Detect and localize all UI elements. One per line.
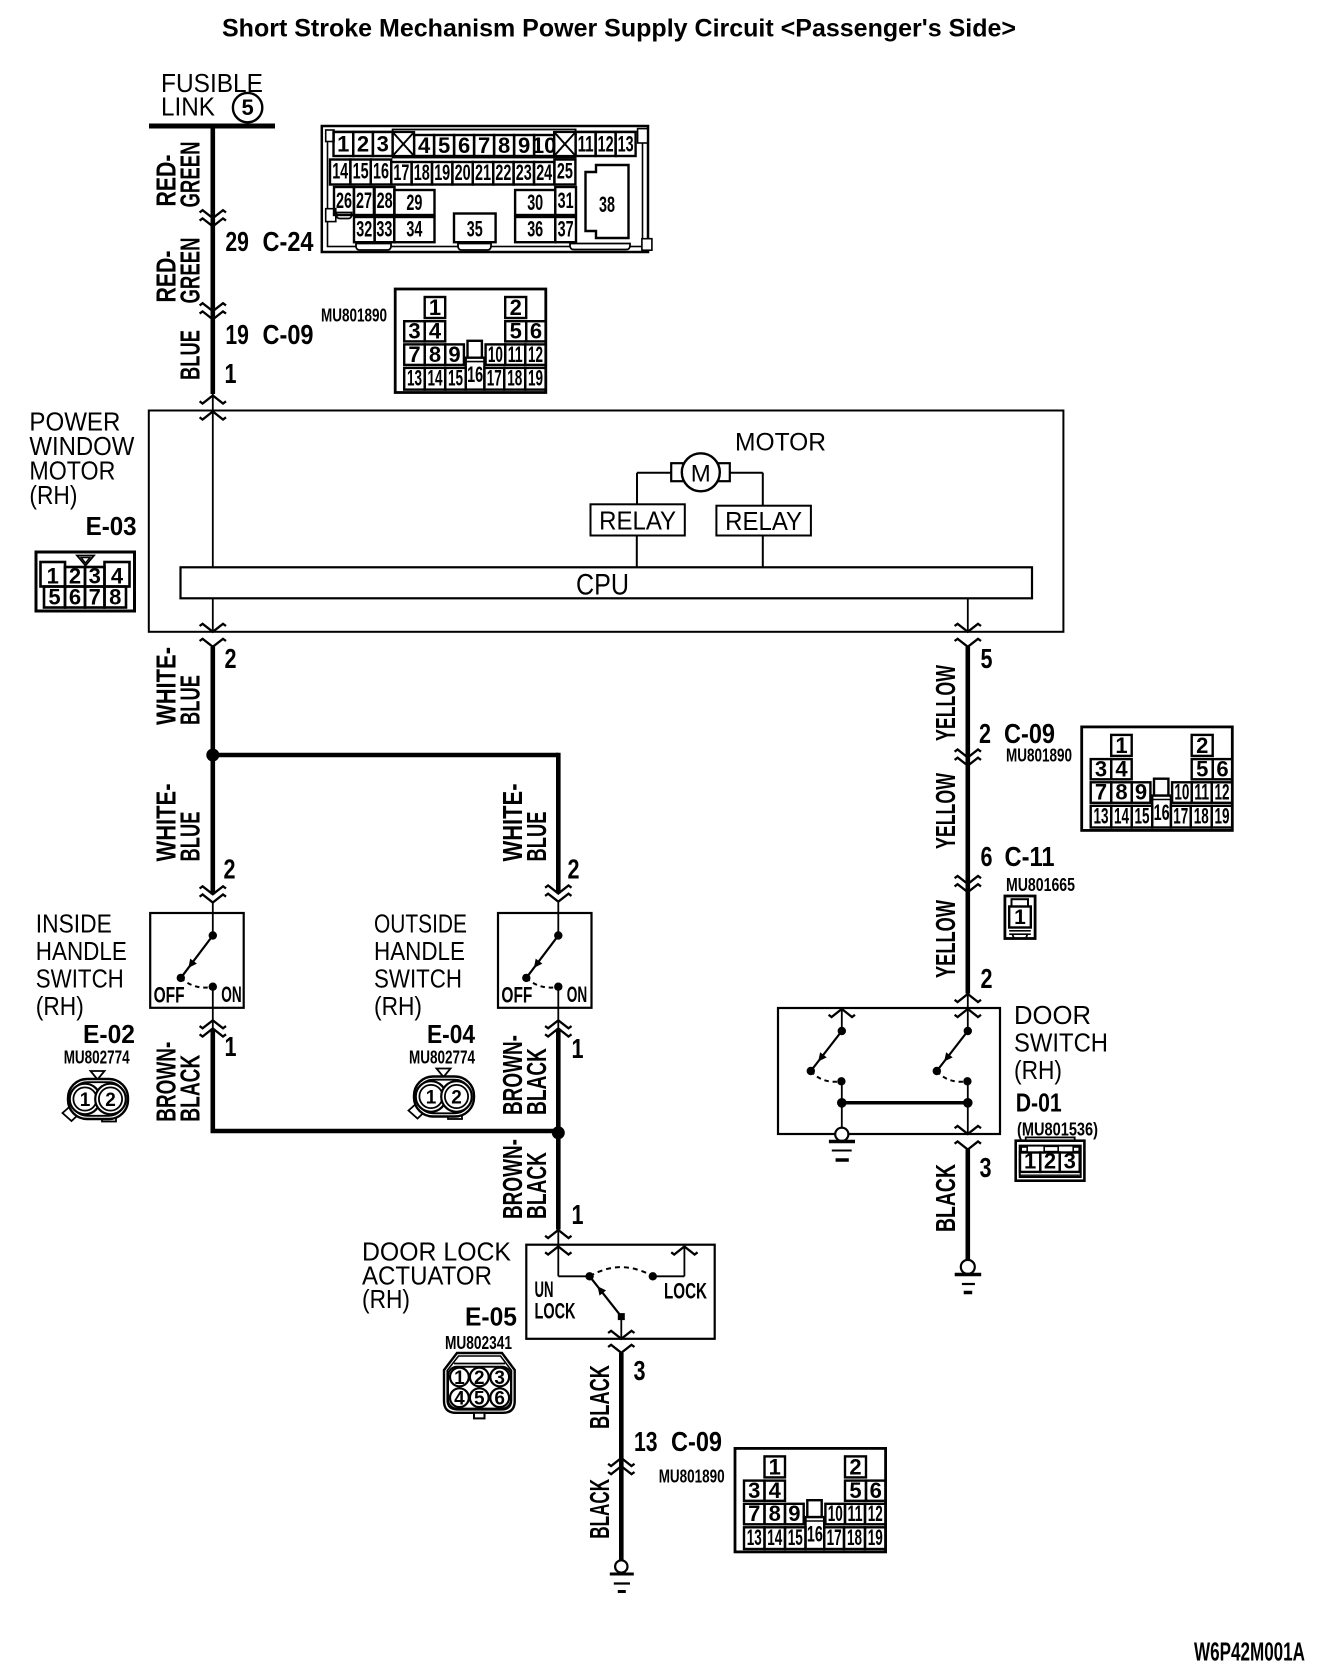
svg-text:2: 2 [979,718,991,749]
connector crossing E-04 pin 2 [545,886,571,894]
svg-text:SWITCH: SWITCH [36,964,124,994]
svg-text:5: 5 [438,133,450,158]
svg-text:D-01: D-01 [1016,1088,1062,1118]
svg-text:1: 1 [80,1090,91,1111]
svg-text:8: 8 [498,133,510,158]
svg-text:C-09: C-09 [671,1426,722,1457]
svg-text:RELAY: RELAY [599,505,676,535]
svg-text:GREEN: GREEN [174,238,205,304]
svg-text:29: 29 [225,226,249,257]
connector crossing C-09 pin 13 [608,1466,634,1474]
svg-text:1: 1 [337,132,349,157]
svg-text:BLACK: BLACK [584,1365,615,1429]
svg-text:BLUE: BLUE [174,812,205,862]
svg-text:1: 1 [572,1199,584,1230]
wire BLACK actuator to C-09 [619,1353,624,1561]
svg-text:3: 3 [634,1355,646,1386]
svg-text:LINK: LINK [161,92,216,122]
wire exit door lock actuator pin 3 [620,1317,622,1339]
svg-text:3: 3 [377,132,389,157]
svg-text:MU801665: MU801665 [1006,875,1075,895]
connector C-24 pin 38 [586,165,629,238]
svg-text:MU802774: MU802774 [64,1048,130,1068]
svg-text:18: 18 [414,160,430,185]
wire CPU to box bottom pin 5 [967,598,969,632]
wire entry into power window motor box [212,394,214,411]
wire BROWN-BLACK junction to door lock actuator [556,1133,561,1230]
svg-text:14: 14 [332,159,348,184]
door switch right contact set [964,1027,972,1035]
svg-text:2: 2 [224,854,236,885]
svg-text:BLACK: BLACK [930,1164,961,1232]
svg-text:35: 35 [467,217,483,242]
wire YELLOW C-11 to door switch [965,884,970,994]
body ground G3 [615,1560,627,1572]
door switch internal ground G1 [841,1103,843,1128]
svg-text:BLACK: BLACK [584,1479,615,1539]
wire CPU to box bottom pin 2 [212,598,214,632]
connector E-03 pin layout [36,552,135,611]
wire YELLOW C-09 to C-11 [965,758,970,885]
svg-text:SWITCH: SWITCH [374,964,462,994]
svg-text:LOCK: LOCK [535,1299,576,1324]
door switch left contact set [841,1008,843,1031]
svg-text:BLUE: BLUE [174,330,205,380]
svg-text:8: 8 [109,585,121,610]
svg-text:M: M [691,461,711,488]
svg-text:1: 1 [225,1031,237,1062]
connector crossing C-09 pin 2 [955,750,981,758]
svg-text:7: 7 [478,133,490,158]
svg-text:C-24: C-24 [263,226,314,257]
svg-text:INSIDE: INSIDE [36,909,112,939]
svg-text:2: 2 [1044,1148,1056,1173]
power window motor box [149,411,1064,632]
wire BROWN-BLACK outside switch to junction [557,1008,559,1029]
svg-text:W6P42M001A: W6P42M001A [1194,1637,1305,1667]
svg-text:1: 1 [1024,1148,1036,1173]
svg-text:23: 23 [516,160,532,185]
svg-text:34: 34 [406,217,422,242]
svg-text:(RH): (RH) [374,991,422,1021]
svg-text:28: 28 [377,188,393,213]
svg-text:MU802341: MU802341 [445,1333,512,1353]
svg-text:SWITCH: SWITCH [1014,1028,1108,1058]
body ground G2 [961,1260,975,1274]
svg-text:2: 2 [357,132,369,157]
svg-text:11: 11 [578,132,594,157]
svg-text:MOTOR: MOTOR [735,429,826,457]
wire exit door switch pin 3 [967,1103,969,1134]
door switch common link [842,1101,968,1105]
connector E-04 symbol [409,1069,475,1120]
svg-text:BLACK: BLACK [521,1048,552,1115]
svg-text:OFF: OFF [154,982,185,1007]
svg-text:6: 6 [494,1389,505,1410]
svg-text:25: 25 [557,159,573,184]
svg-text:(RH): (RH) [29,480,77,510]
svg-text:6: 6 [981,841,993,872]
connector E-02 symbol [63,1071,129,1122]
svg-text:5: 5 [241,95,253,120]
svg-text:ON: ON [567,982,587,1007]
wire WHITE-BLUE branch horizontal [213,753,559,758]
svg-text:24: 24 [536,160,552,185]
svg-text:17: 17 [393,160,409,185]
svg-text:E-02: E-02 [83,1019,135,1049]
svg-text:6: 6 [69,585,81,610]
svg-text:33: 33 [376,217,392,242]
svg-text:38: 38 [599,192,615,217]
svg-text:E-03: E-03 [86,511,137,541]
svg-text:3: 3 [980,1152,992,1183]
svg-text:9: 9 [518,133,530,158]
svg-text:YELLOW: YELLOW [930,773,961,849]
connector crossing C-09 pin 19 [200,303,226,311]
svg-text:ON: ON [221,982,241,1007]
wire BLACK door switch to body ground [965,1150,970,1260]
svg-text:CPU: CPU [576,569,629,602]
svg-text:21: 21 [475,160,491,185]
connector E-05 symbol [444,1353,515,1418]
svg-text:YELLOW: YELLOW [930,900,961,978]
svg-text:OUTSIDE: OUTSIDE [374,909,467,939]
svg-text:5: 5 [48,585,60,610]
svg-text:(RH): (RH) [36,991,84,1021]
svg-text:2: 2 [225,643,237,674]
svg-text:2: 2 [105,1090,116,1111]
svg-text:MU801890: MU801890 [1006,746,1072,766]
door lock actuator lever [590,1276,622,1316]
wire WHITE-BLUE pin 2 to junction [200,639,226,647]
connector C-24 (38 pin) [322,126,652,252]
svg-text:36: 36 [527,217,543,242]
svg-text:HANDLE: HANDLE [374,936,465,966]
svg-text:GREEN: GREEN [174,142,205,208]
svg-text:20: 20 [455,160,471,185]
svg-text:19: 19 [434,160,450,185]
wire YELLOW pin 5 to C-09 [955,639,981,647]
svg-text:15: 15 [353,159,369,184]
svg-text:37: 37 [558,217,574,242]
wire inside motor box from pin 1 to CPU [212,411,214,568]
svg-text:BLUE: BLUE [521,812,552,862]
svg-text:RELAY: RELAY [725,506,802,536]
inside handle switch SW1 [150,913,244,1008]
wire RED-GREEN fusible link to C-24 [211,126,216,218]
svg-text:7: 7 [89,585,101,610]
svg-text:C-09: C-09 [1004,718,1055,749]
svg-text:MU801890: MU801890 [321,306,387,326]
relay K2 [716,506,811,536]
connector D-01 symbol (MU801536) [1016,1137,1085,1180]
fusible link number 5 [233,93,262,122]
connector C-09 instance near pin 13 [735,1448,886,1552]
svg-text:16: 16 [373,159,389,184]
svg-text:DOOR: DOOR [1014,1000,1091,1030]
svg-text:HANDLE: HANDLE [36,936,127,966]
svg-text:E-05: E-05 [465,1302,517,1332]
svg-text:C-11: C-11 [1005,841,1055,872]
svg-text:4: 4 [454,1389,465,1410]
door lock actuator box [526,1245,714,1339]
svg-text:1: 1 [225,358,237,389]
wire BROWN-BLACK inside switch to corner [212,1008,214,1029]
svg-text:31: 31 [558,188,574,213]
svg-text:BLACK: BLACK [174,1055,205,1122]
svg-text:2: 2 [981,963,993,994]
relay K1 [591,504,685,535]
fusible link bus bar [149,124,275,129]
svg-text:1: 1 [454,1368,465,1389]
svg-text:YELLOW: YELLOW [930,665,961,741]
svg-text:BLUE: BLUE [174,675,205,725]
svg-text:13: 13 [618,132,634,157]
svg-text:C-09: C-09 [263,319,314,350]
connector C-09 instance near pin 19 [395,289,546,393]
wire BLUE C-09 to power window motor [211,311,216,394]
svg-text:29: 29 [406,190,422,215]
svg-text:30: 30 [527,190,543,215]
wire RED-GREEN C-24 to C-09 [211,218,216,311]
CPU U1 [181,567,1033,598]
svg-text:5: 5 [981,643,993,674]
svg-text:1: 1 [426,1087,437,1108]
svg-text:2: 2 [474,1368,485,1389]
svg-text:10: 10 [532,133,556,158]
svg-text:22: 22 [495,160,511,185]
outside handle switch SW2 [498,913,592,1008]
door switch box [778,1008,1000,1134]
junction BROWN-BLACK [552,1126,565,1139]
svg-text:OFF: OFF [501,982,532,1007]
svg-text:2: 2 [451,1087,462,1108]
svg-text:5: 5 [474,1389,485,1410]
svg-text:MU801890: MU801890 [659,1467,725,1487]
connector crossing C-24 pin 29 [200,210,226,218]
svg-text:12: 12 [598,132,614,157]
svg-text:BLACK: BLACK [521,1152,552,1219]
svg-text:4: 4 [418,133,431,158]
wire WHITE-BLUE junction to inside handle switch [211,755,216,894]
svg-text:26: 26 [336,188,352,213]
svg-text:1: 1 [572,1033,584,1064]
door lock actuator contacts [558,1275,589,1277]
connector C-11 symbol [1005,896,1035,939]
svg-text:E-04: E-04 [427,1019,475,1049]
svg-text:(RH): (RH) [1014,1055,1062,1085]
svg-text:6: 6 [458,133,470,158]
svg-text:19: 19 [225,319,249,350]
svg-text:Short Stroke Mechanism Power S: Short Stroke Mechanism Power Supply Circ… [222,15,1016,43]
svg-text:MU802774: MU802774 [409,1048,475,1068]
connector crossing E-02 pin 2 [200,886,226,894]
svg-text:3: 3 [494,1368,505,1389]
svg-text:(RH): (RH) [362,1284,410,1314]
svg-text:1: 1 [1014,906,1026,929]
svg-text:32: 32 [356,217,372,242]
svg-text:2: 2 [568,854,580,885]
wire BROWN-BLACK horizontal to junction [211,1129,559,1134]
connector crossing C-11 pin 6 [955,876,981,884]
connector C-09 instance right [1082,727,1233,831]
junction of WHITE-BLUE branch [206,749,219,762]
svg-text:3: 3 [1064,1148,1076,1173]
svg-text:27: 27 [356,188,372,213]
svg-text:LOCK: LOCK [664,1279,707,1304]
svg-text:13: 13 [634,1426,658,1457]
